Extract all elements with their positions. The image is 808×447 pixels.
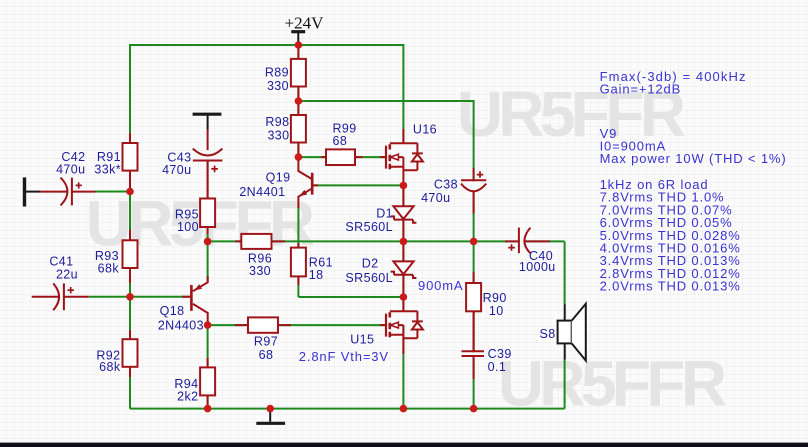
resistor R89	[291, 45, 306, 101]
svg-text:Max power 10W (THD < 1%): Max power 10W (THD < 1%)	[600, 151, 787, 166]
svg-text:SR560L: SR560L	[345, 271, 393, 285]
svg-text:D2: D2	[362, 256, 379, 270]
svg-text:10: 10	[489, 304, 504, 318]
resistor R92	[123, 330, 138, 377]
wire second rail to C38	[298, 101, 473, 241]
resistor R98	[291, 101, 306, 157]
wire Q19 emitter to R61 to lower node	[297, 206, 299, 297]
svg-text:18: 18	[309, 268, 324, 282]
wire R89 branch	[297, 45, 299, 101]
junction R95/R96/Q18 emitter node	[204, 238, 212, 246]
svg-text:68k: 68k	[99, 360, 121, 374]
junction C38/C40/R90 output node	[470, 238, 478, 246]
junction Q18 collector/R97/R94 node	[204, 321, 212, 329]
capacitor C40	[505, 228, 550, 254]
capacitor C41	[32, 283, 89, 310]
ground	[269, 409, 271, 422]
svg-text:2.0Vrms THD 0.013%: 2.0Vrms THD 0.013%	[600, 279, 741, 294]
resistor R99	[321, 149, 363, 165]
svg-text:+24V: +24V	[285, 14, 325, 33]
svg-text:470u: 470u	[56, 163, 85, 177]
svg-text:Q19: Q19	[266, 171, 291, 185]
junction R98/R99/Q19 collector node	[295, 153, 303, 161]
junction bottom rail U15 source	[400, 405, 408, 413]
svg-text:R97: R97	[254, 334, 278, 348]
svg-text:100: 100	[177, 220, 199, 234]
svg-text:C39: C39	[488, 347, 512, 361]
wire R61 bottom horizontal	[298, 296, 403, 298]
diode D1 SR560L	[391, 185, 417, 241]
resistor R93	[123, 230, 138, 283]
junction D2/U15 drain/R61 node	[400, 293, 408, 301]
capacitor C43	[193, 130, 223, 199]
mosfet U16	[380, 129, 423, 185]
svg-text:470u: 470u	[421, 191, 450, 205]
speaker S8	[558, 304, 586, 361]
svg-text:330: 330	[267, 79, 289, 93]
+24V power symbol	[291, 30, 305, 33]
wire output rail	[208, 240, 565, 242]
svg-text:33k*: 33k*	[94, 163, 121, 177]
svg-text:R89: R89	[265, 66, 289, 80]
wire D1 D2 U15 column	[402, 185, 404, 408]
svg-text:900mA: 900mA	[418, 278, 463, 293]
svg-text:S8: S8	[540, 327, 556, 341]
svg-text:1000u: 1000u	[519, 260, 556, 274]
capacitor C39	[462, 311, 485, 379]
transistor Q19 2N4401	[298, 157, 318, 208]
resistor R61	[291, 243, 306, 285]
wire top rail +24V	[130, 45, 403, 192]
wire Q18 emitter	[207, 241, 209, 282]
wire speaker top	[564, 241, 566, 304]
wire Q18 collector to R97 U15 gate	[208, 324, 386, 326]
diode D2 SR560L	[391, 241, 417, 297]
capacitor C42	[40, 178, 96, 206]
svg-text:470u: 470u	[162, 163, 191, 177]
transistor Q18 2N4403	[182, 276, 208, 325]
mosfet U15	[380, 297, 423, 354]
svg-text:330: 330	[249, 264, 271, 278]
junction bottom rail R94	[204, 405, 212, 413]
svg-text:C41: C41	[49, 255, 73, 269]
svg-text:U16: U16	[413, 123, 437, 137]
junction D1/D2 output node	[400, 238, 408, 246]
svg-text:D1: D1	[376, 206, 393, 220]
node A C42/R91/R93 input	[126, 188, 134, 196]
svg-text:Q18: Q18	[160, 304, 185, 318]
svg-text:2k2: 2k2	[177, 390, 198, 404]
svg-text:68k: 68k	[98, 262, 120, 276]
junction bottom rail ground	[266, 405, 274, 413]
svg-text:R90: R90	[483, 291, 507, 305]
junction R89/R98 node	[295, 97, 303, 105]
bottom dark bar	[0, 443, 808, 447]
junction bottom rail C39	[470, 405, 478, 413]
port bar input left	[23, 177, 26, 206]
rail bar above C43	[193, 113, 222, 116]
resistor R90	[466, 272, 481, 351]
wire speaker bottom	[564, 360, 566, 409]
junction U16 source / Q19 base node	[400, 182, 408, 190]
junction +24V rail at R89	[295, 41, 303, 49]
svg-text:22u: 22u	[56, 268, 78, 282]
svg-text:2N4403: 2N4403	[158, 319, 204, 333]
resistor R95	[200, 162, 215, 235]
wire node B to Q18 base	[130, 296, 191, 298]
svg-text:2.8nF Vth=3V: 2.8nF Vth=3V	[299, 349, 389, 364]
wire C42 to node A	[95, 191, 130, 193]
capacitor C38	[461, 168, 486, 214]
svg-text:C38: C38	[434, 177, 458, 191]
resistor R94	[200, 358, 215, 409]
svg-text:68: 68	[333, 134, 348, 148]
wire C38 R90 C39 column	[473, 241, 475, 408]
wire bottom rail	[130, 408, 565, 410]
resistor R97	[235, 317, 291, 332]
wire left column	[129, 192, 131, 409]
svg-text:R98: R98	[265, 115, 289, 129]
wire Q18 collector to R94	[207, 325, 209, 409]
svg-text:0.1: 0.1	[488, 360, 507, 374]
wire C41 to node B	[89, 296, 130, 298]
svg-text:2N4401: 2N4401	[239, 185, 285, 199]
svg-text:330: 330	[267, 129, 289, 143]
wire Q19 base to U16 source node	[312, 184, 403, 186]
wire R99 to U16 gate	[298, 156, 386, 158]
svg-text:68: 68	[259, 348, 274, 362]
resistor R96	[235, 234, 285, 249]
node B C41/R93/R92/Q18 base	[126, 293, 134, 301]
svg-text:U15: U15	[350, 333, 374, 347]
resistor R91	[123, 133, 138, 192]
svg-text:Gain=+12dB: Gain=+12dB	[600, 82, 682, 97]
svg-text:SR560L: SR560L	[345, 220, 393, 234]
wire R98 branch	[297, 101, 299, 157]
wire C43 R95 column to node	[207, 234, 209, 241]
